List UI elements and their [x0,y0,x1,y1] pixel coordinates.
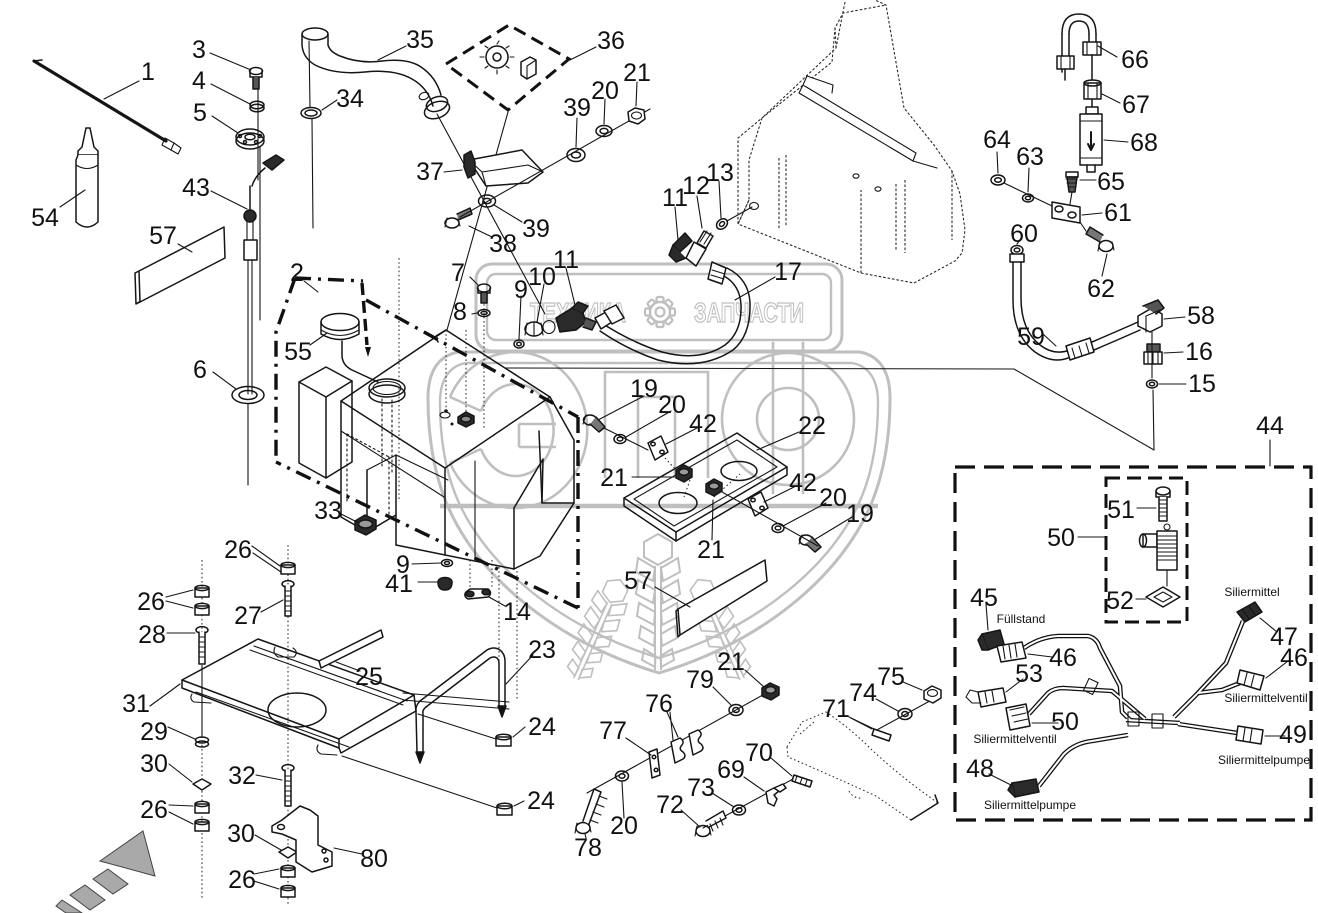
svg-text:46: 46 [1280,644,1308,672]
svg-text:53: 53 [1015,660,1043,688]
svg-text:77: 77 [599,717,627,745]
svg-text:45: 45 [970,584,998,612]
svg-text:16: 16 [1185,338,1213,366]
svg-text:36: 36 [597,27,625,55]
svg-text:37: 37 [416,158,444,186]
svg-text:25: 25 [355,663,383,691]
svg-text:42: 42 [789,469,817,497]
svg-text:79: 79 [686,666,714,694]
svg-text:57: 57 [149,222,177,250]
svg-text:50: 50 [1047,524,1075,552]
svg-text:68: 68 [1130,129,1158,157]
svg-text:32: 32 [228,762,256,790]
svg-text:Siliermittelpumpe: Siliermittelpumpe [984,798,1076,812]
svg-text:30: 30 [140,750,168,778]
svg-text:67: 67 [1122,91,1150,119]
svg-text:19: 19 [630,375,658,403]
svg-text:54: 54 [31,204,59,232]
svg-text:21: 21 [600,464,628,492]
svg-text:17: 17 [774,258,802,286]
svg-text:Siliermittelventil: Siliermittelventil [1224,691,1307,705]
svg-text:69: 69 [717,756,745,784]
svg-text:6: 6 [193,356,207,384]
svg-text:20: 20 [658,391,686,419]
svg-text:26: 26 [224,536,252,564]
svg-text:34: 34 [336,85,364,113]
svg-text:2: 2 [290,259,304,287]
svg-text:52: 52 [1106,587,1134,615]
svg-text:65: 65 [1097,168,1125,196]
svg-text:24: 24 [528,713,556,741]
svg-text:59: 59 [1017,323,1045,351]
svg-text:19: 19 [846,500,874,528]
svg-text:10: 10 [528,263,556,291]
svg-text:60: 60 [1010,220,1038,248]
svg-text:42: 42 [689,410,717,438]
svg-text:80: 80 [360,845,388,873]
svg-text:38: 38 [489,230,517,258]
svg-text:44: 44 [1256,412,1284,440]
svg-text:30: 30 [227,820,255,848]
svg-text:5: 5 [193,99,207,127]
svg-text:39: 39 [522,215,550,243]
svg-text:61: 61 [1104,199,1132,227]
svg-text:27: 27 [234,602,262,630]
svg-text:11: 11 [553,246,579,274]
svg-text:31: 31 [122,690,150,718]
svg-text:20: 20 [819,484,847,512]
svg-text:Füllstand: Füllstand [997,612,1046,626]
svg-text:20: 20 [591,77,619,105]
svg-text:15: 15 [1188,370,1216,398]
svg-text:63: 63 [1016,143,1044,171]
svg-text:26: 26 [137,588,165,616]
svg-text:14: 14 [503,598,531,626]
svg-text:76: 76 [645,690,673,718]
svg-text:66: 66 [1121,46,1149,74]
svg-text:4: 4 [192,67,206,95]
svg-text:78: 78 [574,834,602,862]
svg-text:64: 64 [983,126,1011,154]
svg-text:3: 3 [192,36,206,64]
svg-text:46: 46 [1049,644,1077,672]
svg-text:43: 43 [182,174,210,202]
svg-text:7: 7 [451,259,465,287]
svg-text:41: 41 [385,570,413,598]
svg-text:49: 49 [1279,721,1307,749]
svg-text:72: 72 [656,791,684,819]
svg-text:39: 39 [563,94,591,122]
svg-text:73: 73 [687,774,715,802]
svg-text:51: 51 [1107,496,1135,524]
svg-text:21: 21 [697,536,725,564]
svg-text:62: 62 [1087,275,1115,303]
svg-text:75: 75 [877,663,905,691]
svg-text:24: 24 [527,787,555,815]
svg-text:9: 9 [514,276,528,304]
svg-text:48: 48 [966,755,994,783]
svg-text:71: 71 [822,695,850,723]
svg-text:70: 70 [745,739,773,767]
svg-text:Siliermittel: Siliermittel [1224,585,1279,599]
svg-text:26: 26 [228,866,256,894]
svg-text:33: 33 [314,497,342,525]
svg-text:74: 74 [849,679,877,707]
svg-text:21: 21 [623,59,651,87]
svg-text:55: 55 [284,338,312,366]
svg-text:58: 58 [1187,302,1215,330]
svg-text:26: 26 [140,796,168,824]
svg-text:21: 21 [717,648,745,676]
svg-text:22: 22 [798,412,826,440]
svg-text:13: 13 [706,159,734,187]
svg-text:Siliermittelventil: Siliermittelventil [973,732,1056,746]
svg-text:Siliermittelpumpe: Siliermittelpumpe [1218,753,1310,767]
svg-text:1: 1 [141,58,155,86]
svg-text:57: 57 [624,567,652,595]
svg-text:20: 20 [610,812,638,840]
svg-text:28: 28 [138,621,166,649]
svg-text:29: 29 [140,718,168,746]
svg-text:23: 23 [528,636,556,664]
svg-text:35: 35 [406,26,434,54]
svg-text:8: 8 [453,298,467,326]
